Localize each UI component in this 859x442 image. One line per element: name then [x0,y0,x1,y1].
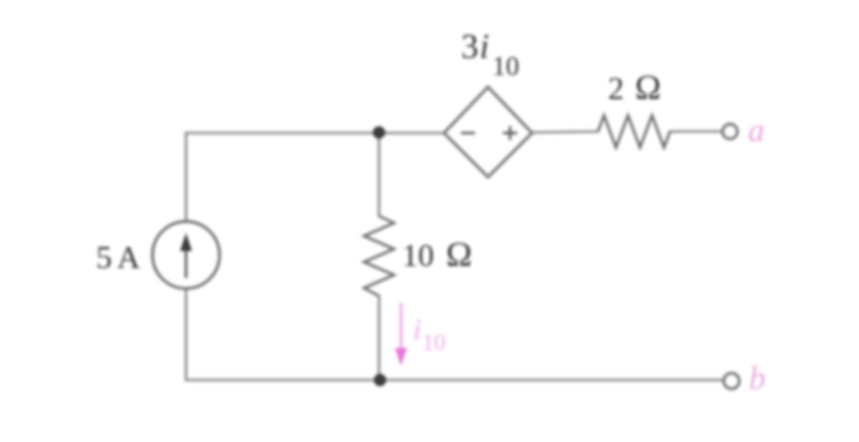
svg-text:i10: i10 [413,313,445,355]
svg-text:2Ω: 2Ω [608,68,661,107]
svg-text:b: b [749,361,766,397]
svg-text:10Ω: 10Ω [402,235,472,274]
svg-text:a: a [748,113,765,149]
svg-text:3i10: 3i10 [461,27,519,81]
svg-text:5A: 5A [96,239,140,275]
